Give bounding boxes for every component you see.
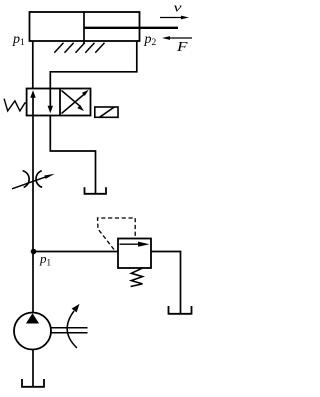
relief valve pilot line (dashed) bbox=[98, 218, 136, 250]
hatching (fixed mount) bbox=[54, 43, 104, 53]
relief valve body bbox=[118, 239, 151, 269]
valve solenoid bbox=[95, 107, 118, 117]
svg-text:F: F bbox=[176, 40, 188, 55]
tank (relief return) bbox=[169, 306, 192, 314]
throttle adjust arrow bbox=[12, 177, 46, 189]
pump shaft bbox=[51, 327, 88, 329]
arrow v bbox=[160, 17, 185, 19]
wire valve T to tank bbox=[50, 116, 95, 194]
main pressure line (valve P to pump) bbox=[32, 116, 34, 314]
throttle valve arcs bbox=[23, 171, 30, 188]
svg-text:p2: p2 bbox=[144, 32, 157, 48]
cylinder barrel bbox=[30, 12, 140, 41]
piston rod bbox=[84, 27, 178, 29]
valve spring bbox=[4, 99, 27, 111]
tank (pump suction) bbox=[22, 379, 44, 387]
svg-text:p1: p1 bbox=[12, 32, 25, 48]
directional valve U1 body bbox=[27, 89, 91, 116]
valve left position up arrow bbox=[32, 97, 34, 116]
valve right position crossed arrow 1 bbox=[62, 94, 86, 114]
tank (valve return) bbox=[85, 187, 107, 194]
piston bbox=[83, 12, 85, 44]
wire node to relief valve bbox=[34, 251, 119, 253]
valve divider bbox=[59, 89, 61, 116]
pump rotation arrow bbox=[67, 311, 77, 348]
node p1 junction bbox=[31, 249, 37, 255]
arrow F bbox=[166, 37, 192, 39]
wire pump suction bbox=[32, 350, 34, 387]
relief valve flow arrow bbox=[120, 243, 142, 245]
wire relief valve to tank bbox=[151, 252, 181, 314]
svg-text:p1: p1 bbox=[39, 251, 51, 267]
wire p1 port to valve A bbox=[32, 41, 34, 89]
wire p2 port to valve B bbox=[50, 41, 137, 89]
valve right position crossed arrow 2 bbox=[62, 91, 81, 107]
pump P1 circle bbox=[14, 313, 51, 350]
valve left position down arrow bbox=[49, 89, 51, 107]
relief valve spring bbox=[131, 268, 143, 286]
svg-text:v: v bbox=[174, 0, 182, 15]
pump outlet triangle bbox=[26, 313, 39, 323]
